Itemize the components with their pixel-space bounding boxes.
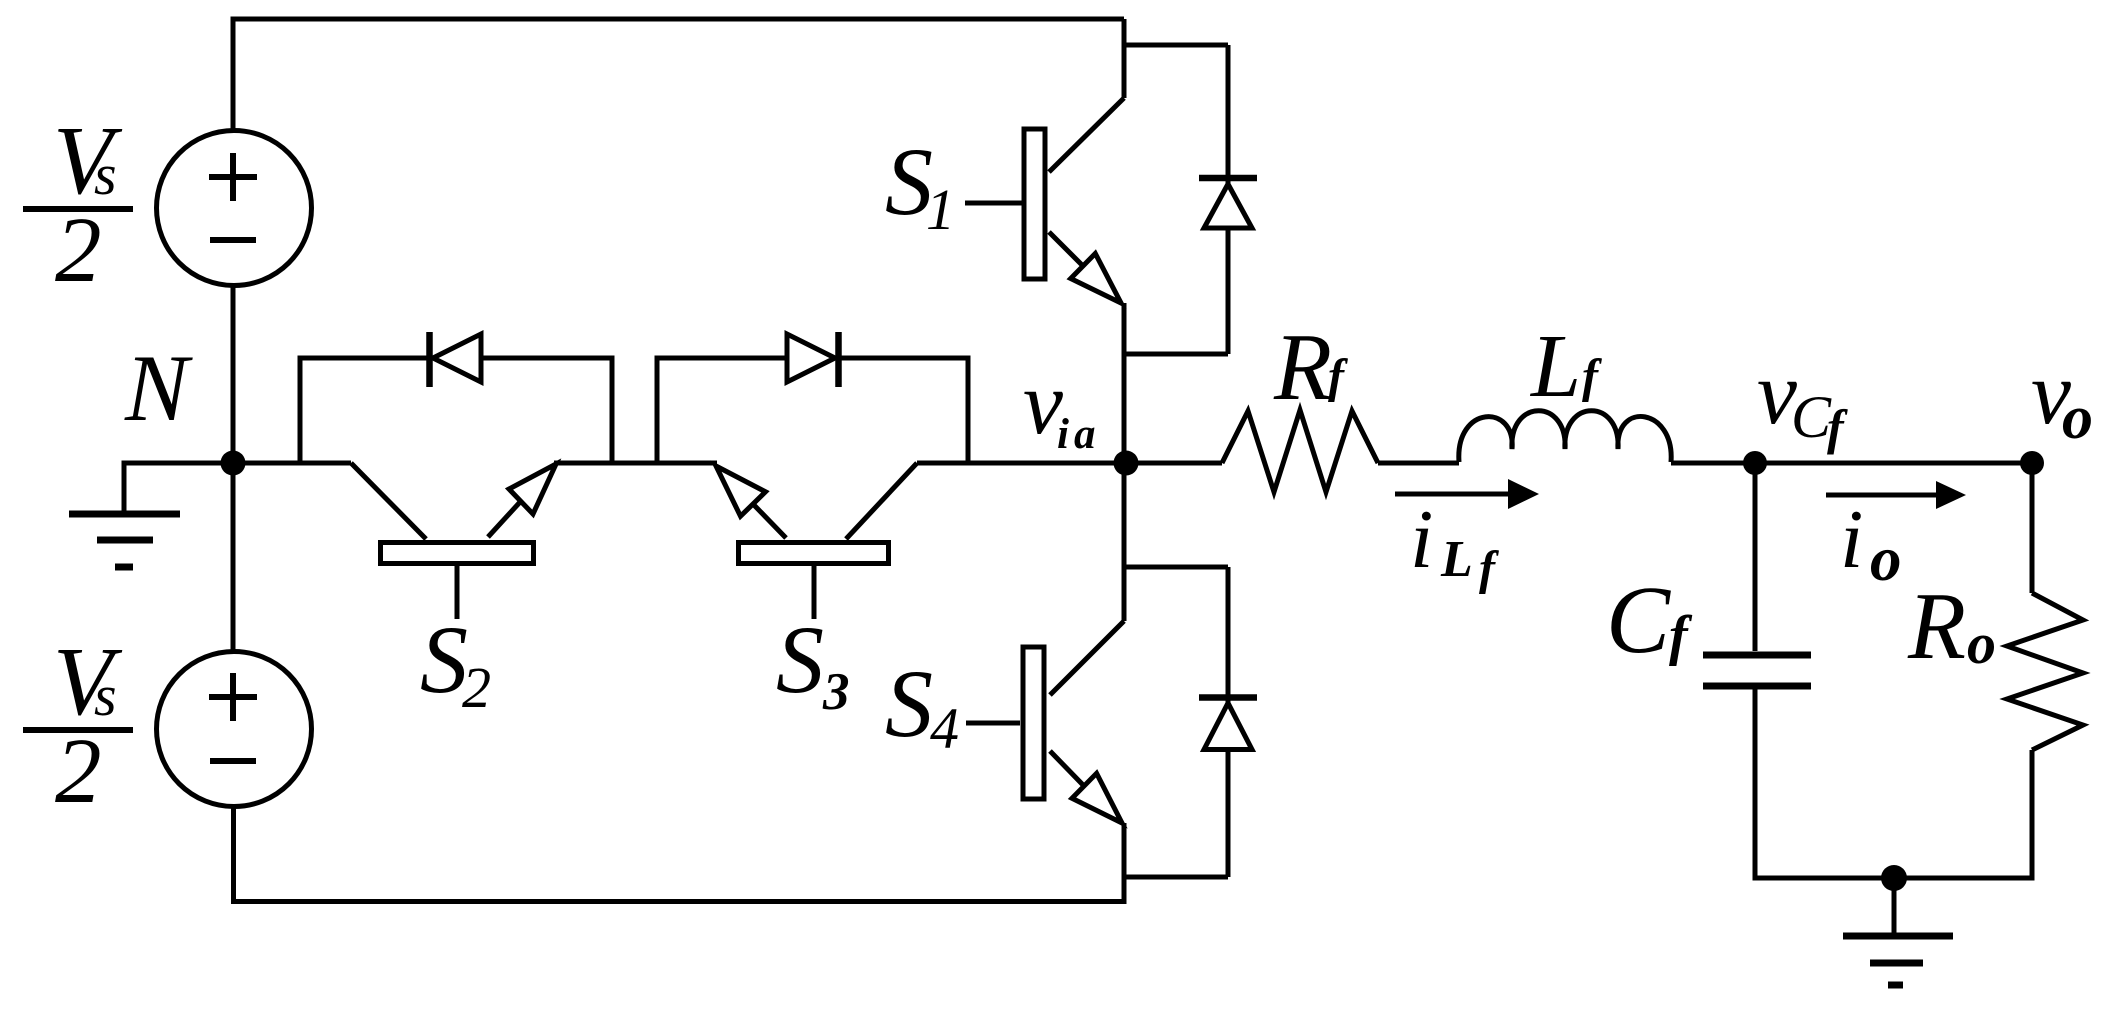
- svg-text:f: f: [1328, 350, 1348, 403]
- svg-text:f: f: [1669, 605, 1693, 667]
- transistor S3 gate bar: [739, 543, 889, 564]
- svg-text:o: o: [1870, 524, 1902, 594]
- transistor S4 emitter lead: [1050, 751, 1084, 786]
- svg-text:R: R: [1273, 314, 1332, 420]
- diode D2 cathode bar: [426, 332, 433, 387]
- wire S4 diode branch return: [1124, 875, 1228, 880]
- svg-text:2: 2: [55, 199, 102, 302]
- arrow i_o: [1826, 493, 1941, 498]
- svg-text:i: i: [1840, 493, 1863, 586]
- transistor S1 emitter lead: [1049, 232, 1083, 266]
- transistor S2 emitter lead: [488, 501, 521, 537]
- transistor S1 collector lead: [1049, 98, 1124, 172]
- resistor Rf zigzag: [1222, 410, 1378, 492]
- wire S1 diode branch vertical: [1226, 45, 1231, 354]
- diode D3 cathode bar: [835, 332, 842, 387]
- capacitor Cf bottom wire: [1753, 689, 1758, 881]
- svg-text:L: L: [1529, 317, 1581, 416]
- arrowhead i_o: [1936, 481, 1966, 509]
- inductor Lf: [1459, 411, 1671, 462]
- transistor S3 emitter lead: [753, 504, 786, 538]
- node v_o junction dot: [2020, 451, 2044, 475]
- wire rail between S2 and S3: [554, 461, 717, 466]
- svg-text:3: 3: [822, 663, 850, 721]
- wire Rf to Lf: [1378, 461, 1459, 466]
- svg-text:S: S: [885, 650, 933, 757]
- svg-text:o: o: [1967, 611, 1996, 676]
- transistor S2 gate bar: [381, 543, 534, 564]
- diode D1 cathode bar: [1199, 175, 1257, 182]
- wire bottom rail: [231, 899, 1127, 904]
- svg-text:2: 2: [462, 655, 491, 720]
- resistor Ro top wire: [2030, 463, 2035, 593]
- svg-text:4: 4: [930, 696, 959, 761]
- svg-text:f: f: [1827, 399, 1848, 455]
- wire lower source to bottom rail: [231, 806, 236, 904]
- voltage source V2 lower Vs/2: [157, 652, 312, 807]
- node v_ia junction dot: [1114, 451, 1139, 476]
- diode D2 triangle: [433, 334, 481, 382]
- ground right stub: [1892, 878, 1897, 933]
- wire v_ia to S4 branch: [1122, 463, 1127, 621]
- transistor S4 emitter arrow: [1072, 773, 1122, 823]
- wire S1 diode branch top: [1124, 43, 1228, 48]
- wire node N to lower source: [231, 463, 236, 652]
- capacitor Cf plates: [1703, 652, 1811, 659]
- svg-text:ia: ia: [1057, 411, 1100, 458]
- arrow i_Lf: [1395, 492, 1512, 497]
- svg-text:S: S: [420, 606, 468, 713]
- wire upper source to node N: [231, 285, 236, 463]
- svg-text:L: L: [1440, 531, 1473, 588]
- wire S4 emitter to bottom rail: [1122, 823, 1127, 904]
- ground left: [69, 511, 180, 518]
- svg-text:s: s: [94, 142, 117, 207]
- svg-text:C: C: [1606, 566, 1671, 673]
- wire S1 top vertical: [1122, 19, 1127, 98]
- node v_Cf junction dot: [1743, 451, 1767, 475]
- diode D4 triangle: [1204, 703, 1252, 750]
- svg-text:i: i: [1410, 493, 1433, 586]
- ground right: [1843, 933, 1953, 940]
- arrowhead i_Lf: [1508, 479, 1539, 509]
- capacitor Cf top wire: [1753, 463, 1758, 651]
- voltage source V1 upper Vs/2: [157, 131, 312, 286]
- diode D4 cathode bar: [1199, 694, 1257, 701]
- wire rail S3 to v_ia: [917, 461, 1222, 466]
- diode D3 triangle: [787, 334, 835, 382]
- wire node N to left ground stub: [124, 463, 233, 514]
- transistor S4 gate bar: [1023, 647, 1044, 799]
- transistor S1 emitter arrow: [1071, 254, 1121, 304]
- transistor S3 gate lead: [812, 566, 817, 619]
- wire left vertical top: [231, 17, 236, 134]
- transistor S3 collector lead: [846, 463, 917, 539]
- svg-text:2: 2: [55, 720, 102, 823]
- svg-text:S: S: [776, 606, 824, 713]
- svg-text:C: C: [1791, 384, 1832, 450]
- wire top rail: [231, 17, 1125, 22]
- svg-text:s: s: [94, 663, 117, 728]
- svg-text:f: f: [1479, 542, 1499, 595]
- wire rail N to S2 collector: [233, 461, 351, 466]
- wire Lf to vo: [1671, 461, 2032, 466]
- transistor S2 gate lead: [455, 566, 460, 619]
- node ground junction dot: [1881, 865, 1907, 891]
- wire S4 diode branch top: [1124, 565, 1228, 570]
- svg-text:1: 1: [926, 177, 955, 242]
- wire S2 diode loop: [300, 358, 612, 461]
- svg-text:o: o: [2062, 384, 2093, 452]
- diode D1 triangle: [1204, 184, 1252, 228]
- wire S1 emitter to v_ia node: [1122, 303, 1127, 463]
- wire S1 diode branch return: [1124, 352, 1228, 357]
- transistor S1 gate bar: [1024, 129, 1045, 279]
- wire S3 diode loop: [657, 358, 968, 461]
- node N junction dot: [221, 451, 246, 476]
- wire bottom output rail: [1753, 876, 2035, 881]
- svg-text:N: N: [124, 335, 193, 441]
- resistor Ro zigzag: [2007, 593, 2083, 750]
- resistor Ro bottom wire: [2030, 750, 2035, 878]
- transistor S3 emitter arrow: [716, 466, 766, 516]
- svg-text:R: R: [1907, 573, 1966, 679]
- wire S4 diode branch vertical: [1226, 567, 1231, 877]
- transistor S4 collector lead: [1050, 621, 1124, 695]
- svg-text:f: f: [1582, 350, 1602, 403]
- lead S4 label to gate: [966, 721, 1020, 726]
- transistor S2 emitter arrow: [509, 464, 556, 514]
- transistor S2 collector lead: [351, 463, 426, 539]
- lead S1 label to gate: [965, 201, 1022, 206]
